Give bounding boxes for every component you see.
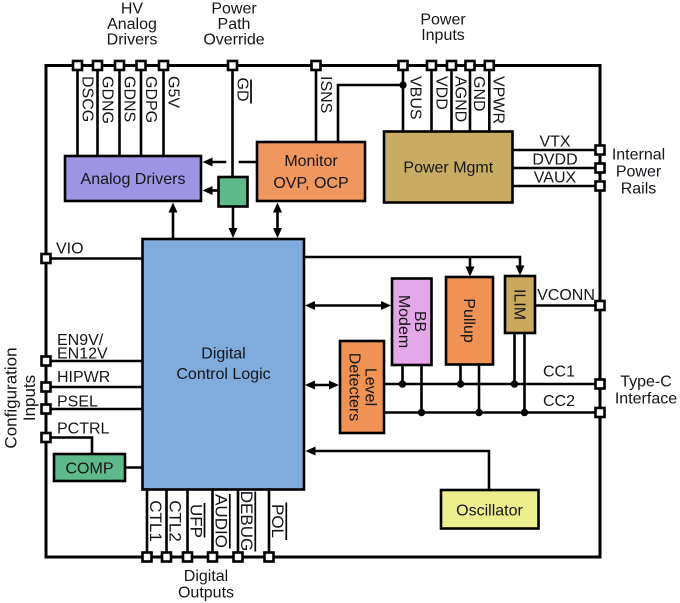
- svg-text:CC1: CC1: [543, 364, 575, 381]
- block BB Modem: [392, 279, 432, 366]
- junction dot VBUS monitor: [399, 81, 406, 88]
- wire CTL1: [146, 490, 149, 558]
- wire ILIM to CC1: [513, 333, 516, 384]
- wire BB modem to CC2: [420, 365, 423, 413]
- svg-text:CTL1: CTL1: [146, 500, 165, 542]
- svg-text:VBUS: VBUS: [407, 76, 424, 120]
- svg-text:EN12V: EN12V: [57, 346, 108, 363]
- svg-text:Type-C: Type-C: [620, 374, 672, 391]
- pin VBUS: [399, 61, 408, 70]
- pin POL: [265, 553, 274, 562]
- wire monitor to VBUS: [338, 85, 403, 142]
- arrowhead green to DCL: [229, 228, 238, 238]
- wire ILIM to CC2: [523, 333, 526, 413]
- svg-text:AUDIO: AUDIO: [212, 494, 231, 548]
- junction dot ILIM CC2: [521, 409, 528, 416]
- pin VDD: [427, 61, 436, 70]
- svg-text:HIPWR: HIPWR: [57, 369, 110, 386]
- pin ISNS: [312, 61, 321, 70]
- svg-text:G5V: G5V: [164, 76, 181, 108]
- svg-text:GDPG: GDPG: [142, 76, 159, 123]
- arrowhead oscillator DCL: [306, 447, 316, 456]
- wire AUDIO: [211, 490, 214, 558]
- pin CTL1: [143, 553, 152, 562]
- svg-text:Control Logic: Control Logic: [176, 366, 270, 383]
- arrowhead monitor DCL down: [273, 228, 282, 238]
- pin VPWR: [485, 61, 494, 70]
- wire UFP: [186, 490, 189, 558]
- svg-text:Power: Power: [211, 1, 257, 18]
- wire VIO: [46, 257, 143, 260]
- svg-text:Power Mgmt: Power Mgmt: [403, 160, 493, 177]
- pin VIO: [42, 254, 51, 263]
- svg-text:CC2: CC2: [543, 393, 575, 410]
- chip outer border: [46, 66, 600, 558]
- wire VCONN: [535, 304, 600, 307]
- block Monitor OVP OCP: [257, 142, 365, 201]
- svg-text:Interface: Interface: [615, 391, 677, 408]
- block Level Detecters: [340, 341, 384, 433]
- svg-text:Drivers: Drivers: [107, 32, 158, 49]
- pin VTX: [596, 146, 605, 155]
- svg-text:GDNG: GDNG: [98, 76, 115, 124]
- svg-text:OVP, OCP: OVP, OCP: [273, 175, 348, 192]
- svg-text:VPWR: VPWR: [489, 76, 506, 124]
- svg-text:Rails: Rails: [621, 181, 657, 198]
- pin GND: [466, 61, 475, 70]
- svg-text:Oscillator: Oscillator: [456, 503, 523, 520]
- svg-text:ILIM: ILIM: [511, 289, 528, 320]
- wire GDPG: [140, 66, 143, 157]
- block COMP: [54, 454, 125, 481]
- pin EN9V/EN12V: [42, 357, 51, 366]
- pin CTL2: [162, 553, 171, 562]
- pin VCONN: [596, 301, 605, 310]
- wire VBUS: [402, 66, 405, 132]
- svg-text:Path: Path: [218, 16, 251, 33]
- svg-text:UFP: UFP: [187, 504, 206, 538]
- wire green to DCL: [232, 207, 235, 231]
- block Digital Control Logic: [143, 239, 305, 490]
- arrowhead DCL to analog drivers: [169, 203, 178, 213]
- wire GDNS: [118, 66, 121, 157]
- wire GDNG: [96, 66, 99, 157]
- svg-text:PCTRL: PCTRL: [57, 421, 110, 438]
- svg-text:Digital: Digital: [184, 568, 228, 585]
- svg-text:Digital: Digital: [201, 346, 245, 363]
- svg-text:COMP: COMP: [66, 461, 114, 478]
- wire monitor DCL double arrow: [276, 211, 279, 231]
- pin DSCG: [73, 61, 82, 70]
- svg-text:Analog Drivers: Analog Drivers: [81, 171, 186, 188]
- svg-text:PSEL: PSEL: [57, 394, 98, 411]
- block Power Mgmt: [384, 132, 513, 203]
- wire POL: [268, 490, 271, 558]
- pin PCTRL: [42, 433, 51, 442]
- wire VTX: [513, 149, 601, 152]
- svg-text:Inputs: Inputs: [421, 27, 465, 44]
- block Analog Drivers: [65, 156, 201, 201]
- wire oscillator to DCL: [314, 451, 490, 490]
- pin DEBUG: [234, 553, 243, 562]
- svg-text:DSCG: DSCG: [78, 76, 95, 122]
- wire EN9V/EN12V: [46, 360, 143, 363]
- pin CC2: [596, 408, 605, 417]
- wire ISNS: [315, 66, 318, 143]
- block green pass: [219, 177, 248, 207]
- wire DCL BB modem double arrow: [313, 304, 383, 307]
- wire DCL level detecters double arrow: [313, 384, 331, 387]
- wire DSCG: [76, 66, 79, 157]
- junction dot BB CC1: [399, 380, 406, 387]
- wire VPWR: [488, 66, 491, 132]
- svg-text:ConfigurationInputs: ConfigurationInputs: [2, 347, 40, 448]
- svg-text:Power: Power: [616, 164, 662, 181]
- wire DCL to pullup and ILIM: [304, 257, 520, 268]
- arrowhead DCL LD left: [305, 381, 315, 390]
- arrowhead green to analog drivers: [203, 186, 213, 195]
- wire CC2: [384, 411, 600, 414]
- wire PCTRL to COMP: [46, 438, 92, 455]
- pin GD: [228, 61, 237, 70]
- arrowhead monitor DCL up: [273, 203, 282, 213]
- wire DCL to analog drivers: [172, 211, 175, 240]
- wire AGND: [450, 66, 453, 132]
- svg-text:VIO: VIO: [56, 241, 84, 258]
- wire G5V: [162, 66, 165, 157]
- svg-text:GND: GND: [470, 76, 487, 112]
- svg-text:VCONN: VCONN: [537, 287, 595, 304]
- wire BB modem to CC1: [401, 365, 404, 384]
- junction dot BB CC2: [418, 409, 425, 416]
- arrowhead DCL LD right: [329, 381, 339, 390]
- wire HIPWR: [46, 386, 143, 389]
- block Oscillator: [441, 490, 539, 529]
- svg-text:HV: HV: [121, 1, 144, 18]
- pin PSEL: [42, 405, 51, 414]
- svg-text:DVDD: DVDD: [532, 152, 577, 169]
- svg-text:GD: GD: [233, 78, 250, 102]
- svg-text:Pullup: Pullup: [460, 298, 477, 343]
- wire CC1: [384, 383, 600, 386]
- wire DEBUG: [237, 490, 240, 558]
- svg-text:CTL2: CTL2: [166, 500, 185, 542]
- wire COMP to DCL: [125, 466, 143, 469]
- svg-text:Outputs: Outputs: [178, 585, 234, 602]
- wire pullup to CC1: [459, 365, 462, 385]
- junction dot pullup CC2: [475, 409, 482, 416]
- pin GDNS: [115, 61, 124, 70]
- pin VAUX: [596, 182, 605, 191]
- block Pullup: [446, 277, 493, 365]
- arrowhead feed ILIM: [516, 266, 525, 276]
- svg-text:DEBUG: DEBUG: [237, 491, 256, 551]
- svg-text:VDD: VDD: [432, 76, 449, 110]
- wire GND: [469, 66, 472, 132]
- block ILIM: [505, 276, 535, 333]
- wire pullup to CC2: [478, 365, 481, 413]
- wire VDD: [430, 66, 433, 132]
- wire VAUX: [513, 185, 601, 188]
- pin GDNG: [93, 61, 102, 70]
- svg-text:Power: Power: [420, 12, 466, 29]
- pin HIPWR: [42, 383, 51, 392]
- arrowhead monitor to analog drivers: [203, 158, 213, 167]
- svg-text:AGND: AGND: [451, 76, 468, 122]
- wire monitor to analog drivers: [239, 161, 257, 164]
- arrowhead DCL BB left: [305, 301, 315, 310]
- pin G5V: [159, 61, 168, 70]
- wire PSEL: [46, 408, 143, 411]
- svg-text:Monitor: Monitor: [284, 153, 338, 170]
- wire green to analog drivers: [210, 189, 219, 192]
- svg-text:Internal: Internal: [612, 147, 665, 164]
- arrowhead DCL BB right: [381, 301, 391, 310]
- wire CTL2: [165, 490, 168, 558]
- pin DVDD: [596, 164, 605, 173]
- svg-text:VAUX: VAUX: [534, 170, 577, 187]
- wire GD: [231, 66, 234, 178]
- wire DVDD: [513, 167, 601, 170]
- pin GDPG: [137, 61, 146, 70]
- svg-text:ISNS: ISNS: [317, 76, 334, 113]
- junction dot pullup CC1: [457, 380, 464, 387]
- pin UFP: [183, 553, 192, 562]
- pin AGND: [447, 61, 456, 70]
- svg-text:Override: Override: [203, 32, 264, 49]
- pin AUDIO: [208, 553, 217, 562]
- arrowhead feed pullup: [466, 267, 475, 277]
- svg-text:Analog: Analog: [107, 16, 157, 33]
- svg-text:POL: POL: [268, 504, 287, 538]
- pin CC1: [596, 380, 605, 389]
- svg-text:GDNS: GDNS: [120, 76, 137, 122]
- svg-text:VTX: VTX: [539, 134, 570, 151]
- junction dot ILIM CC1: [511, 380, 518, 387]
